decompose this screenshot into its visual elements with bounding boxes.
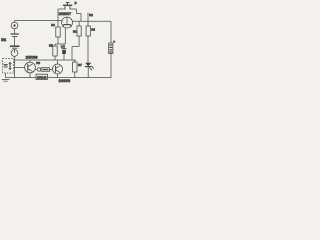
Q2 base lead: [15, 67, 25, 69]
wire box A feed: [57, 21, 59, 28]
capacitor C4 electrolytic: [63, 44, 65, 48]
wire top-right rail: [73, 20, 112, 22]
resistor R7 vertical box: [73, 62, 77, 72]
wire switch right lead: [70, 8, 77, 10]
LED arrows: [89, 67, 91, 70]
internal FET: [9, 62, 11, 70]
svg-text:R6: R6: [36, 61, 40, 65]
wire top-left rail: [15, 20, 62, 22]
transistor Q1: [62, 17, 73, 28]
wire switch branch vertical: [57, 9, 59, 21]
Q3 bottom lead: [57, 74, 59, 78]
capacitor C3 thick plate: [10, 45, 20, 47]
wire right rail lower: [110, 54, 112, 78]
wire lower column: [14, 56, 16, 77]
internal capacitor: [4, 64, 8, 66]
wire below mic: [14, 29, 16, 33]
svg-text:1N4003: 1N4003: [59, 79, 71, 83]
svg-text:1N4148: 1N4148: [37, 76, 47, 80]
resistor R6 horizontal box: [41, 68, 50, 72]
wire Q2 to node: [35, 69, 37, 71]
wire right rail upper: [110, 21, 112, 43]
wire corner down: [76, 9, 78, 14]
resistor R1 vertical box: [77, 26, 81, 36]
sensor circle lower: [11, 50, 18, 57]
svg-text:R7: R7: [78, 63, 82, 67]
svg-text:R2: R2: [91, 28, 95, 32]
component box on bottom rail: [36, 74, 48, 79]
svg-text:+: +: [113, 40, 115, 44]
wire node to Q3: [50, 69, 53, 71]
svg-text:2N2907: 2N2907: [59, 12, 71, 16]
resistor R2 vertical box: [86, 26, 90, 36]
microphone B1 circle with dot: [11, 22, 18, 29]
stub box to column: [14, 61, 15, 63]
Q2 collector tick: [29, 60, 31, 62]
wire R1 jog: [72, 46, 79, 48]
svg-text:R4: R4: [51, 23, 55, 27]
wire switch left lead: [58, 8, 65, 10]
wire bottom rail: [6, 77, 112, 79]
svg-text:R1: R1: [73, 30, 77, 34]
node circle: [37, 68, 40, 71]
electret mic module dashed box: [3, 59, 14, 74]
microphone B1 top lead: [14, 21, 16, 23]
Q3 top lead: [57, 60, 59, 64]
resistor RA vertical box: [56, 27, 60, 37]
switch S1 pushbutton: [63, 3, 72, 10]
wire Q1 emitter down: [64, 28, 66, 44]
resistor R5 vertical box: [53, 46, 57, 56]
wire box bottom lead: [5, 73, 7, 78]
svg-text:Bt1: Bt1: [1, 38, 6, 42]
wire between caps: [14, 37, 16, 46]
capacitor C1 plates: [11, 33, 19, 35]
wire short jog: [77, 13, 82, 15]
wire mid rail: [15, 59, 77, 61]
battery B2: [109, 43, 113, 54]
transistor Q3: [53, 64, 63, 74]
svg-text:R2: R2: [89, 13, 93, 17]
Q2 emitter lead: [29, 73, 31, 78]
svg-text:P: P: [75, 1, 77, 5]
wire jog down to right rail: [80, 14, 82, 22]
node line: [55, 43, 66, 45]
ground marks: [2, 79, 10, 81]
wire box A bottom: [57, 37, 59, 44]
svg-text:2N5089: 2N5089: [26, 56, 38, 60]
LED D1: [85, 63, 91, 66]
transistor Q2: [25, 62, 36, 73]
